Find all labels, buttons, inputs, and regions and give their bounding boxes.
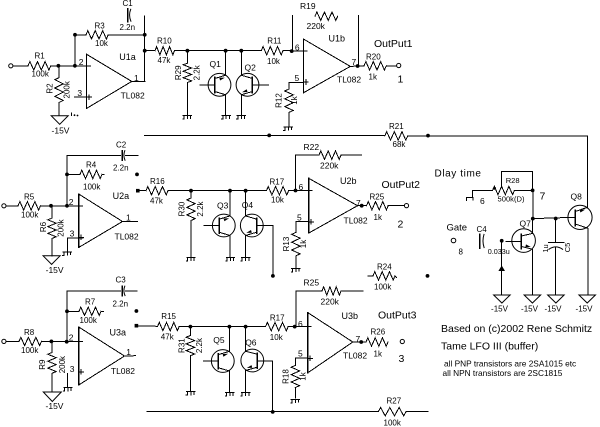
transistor Q7 <box>506 229 535 253</box>
transistor Q8 <box>568 205 592 229</box>
svg-text:Q8: Q8 <box>571 192 583 202</box>
label R10 <box>157 37 172 46</box>
wire to pin2 U2a <box>41 205 83 207</box>
svg-text:Q6: Q6 <box>245 337 257 347</box>
svg-text:7: 7 <box>352 57 357 67</box>
svg-text:200k: 200k <box>58 355 67 373</box>
svg-text:Dlay time: Dlay time <box>435 169 482 180</box>
junction dot Q4 collector <box>244 189 248 193</box>
wire R23 left <box>296 290 322 292</box>
label U3b <box>342 311 359 321</box>
resistor R17 ch2 <box>266 187 288 195</box>
wire to pin2 U3a <box>42 340 83 342</box>
label R3 <box>95 22 106 31</box>
label TL082 U2b <box>344 215 368 225</box>
svg-text:2: 2 <box>69 197 74 207</box>
resistor R11 <box>261 47 283 55</box>
junction dot R9 top <box>50 340 54 344</box>
svg-text:R9: R9 <box>38 359 47 370</box>
svg-text:R17: R17 <box>270 178 285 187</box>
junction dot pin2 U3a <box>65 340 69 344</box>
wire node7 to Q8 base <box>533 217 575 218</box>
label Q3 <box>217 201 229 211</box>
square node R15 left <box>135 324 139 328</box>
junction dot delay tap <box>426 134 430 138</box>
ground R31 <box>186 392 195 396</box>
svg-text:U2a: U2a <box>113 191 130 201</box>
label -15V ch3 <box>46 401 64 411</box>
op-amp U1b <box>303 39 350 93</box>
ground Q1 <box>222 116 231 120</box>
resistor R20 <box>364 62 386 70</box>
label -15V Q8 <box>576 305 594 314</box>
label R23 (reads R25) <box>304 278 320 288</box>
resistor R9 <box>48 341 56 392</box>
label Dlay time <box>435 169 482 180</box>
ground Q6 <box>241 393 250 397</box>
svg-text:C1: C1 <box>123 0 134 8</box>
label R21 <box>389 122 404 131</box>
svg-text:100k: 100k <box>83 183 101 192</box>
svg-text:TL082: TL082 <box>115 231 139 241</box>
wire input1 to R1 <box>13 65 28 67</box>
svg-text:10k: 10k <box>270 333 284 342</box>
ground R12 <box>284 127 293 131</box>
gate jack node 8 <box>451 238 456 243</box>
svg-text:10k: 10k <box>271 195 285 204</box>
junction dot node7 <box>531 217 535 221</box>
svg-text:R6: R6 <box>39 221 48 232</box>
svg-text:100k: 100k <box>21 346 39 355</box>
value 47k R16 <box>150 197 164 206</box>
label R17 ch3 <box>270 314 285 323</box>
pin 5 label U3b <box>298 348 303 358</box>
junction dot C5 top <box>554 217 558 221</box>
svg-text:3: 3 <box>399 353 405 365</box>
wire Q1 emitter to ground <box>225 95 227 115</box>
node 1 label <box>398 74 404 86</box>
value 200k R9 <box>58 355 67 373</box>
svg-text:1k: 1k <box>290 95 299 104</box>
plus marker U1a <box>87 95 92 100</box>
label R30 <box>178 201 187 216</box>
pin 3 label U1a <box>77 88 82 98</box>
transistor Q5 <box>203 350 234 373</box>
label R11 <box>267 37 282 46</box>
text tame lfo <box>441 341 538 353</box>
svg-text:2.2k: 2.2k <box>195 337 204 353</box>
svg-text:R7: R7 <box>85 298 96 307</box>
wire R15 lead <box>138 325 157 327</box>
label R19 <box>300 1 316 11</box>
label R26 <box>371 328 386 337</box>
value 220k R23 <box>321 297 340 307</box>
wire ch1 stage2 bus <box>187 50 291 52</box>
svg-text:R5: R5 <box>24 193 35 202</box>
svg-text:R21: R21 <box>389 122 404 131</box>
svg-text:100k: 100k <box>374 283 392 292</box>
transistor Q1 <box>200 73 231 96</box>
pin 5 stub U3b <box>295 357 307 359</box>
ground Q3 <box>226 258 235 262</box>
plus marker U3a <box>79 370 84 375</box>
output jack 2 <box>404 204 408 208</box>
junction dot R31 top <box>189 325 193 329</box>
label C1 <box>123 0 134 8</box>
wire Q6 base down <box>272 361 274 412</box>
svg-text:1k: 1k <box>369 73 378 82</box>
label -15V ch1 <box>52 125 70 135</box>
svg-text:200k: 200k <box>57 218 66 236</box>
ground R30 <box>186 258 195 262</box>
label R22 <box>304 142 320 152</box>
label R18 <box>282 369 291 384</box>
label TL082 U1b <box>337 75 361 85</box>
label TL082 U1a <box>121 91 145 101</box>
partial ground marks U1a pin3 <box>72 113 79 116</box>
value 1k R13 <box>299 239 308 248</box>
dot Q4 base net <box>271 274 275 278</box>
svg-text:U3a: U3a <box>110 328 127 338</box>
value 10k R17 ch3 <box>270 333 284 342</box>
value 2.2k R31 <box>195 337 204 353</box>
transistor Q2 <box>236 73 268 96</box>
wire node7 vertical <box>532 190 534 218</box>
label R1 <box>35 52 46 61</box>
label R25 <box>370 193 385 202</box>
svg-text:220k: 220k <box>307 21 326 31</box>
junction dot output U2b <box>360 204 364 208</box>
ground U3a pin3 <box>63 388 72 392</box>
wire Q2 collector <box>240 51 242 75</box>
resistor R21 <box>385 132 408 140</box>
wire pin2 to feedback <box>74 35 76 66</box>
resistor R7 <box>67 307 104 315</box>
svg-text:47k: 47k <box>161 333 175 342</box>
power -15V channel2 input <box>43 256 60 265</box>
wire Q5 collector <box>228 327 230 352</box>
value 1k R20 <box>369 73 378 82</box>
resistor R31 <box>186 327 194 391</box>
svg-text:R1: R1 <box>35 52 46 61</box>
label Q6 <box>245 337 257 347</box>
op-amp U3b <box>308 313 353 373</box>
text pnp note <box>444 359 576 369</box>
svg-text:TL082: TL082 <box>343 351 367 361</box>
svg-text:200k: 200k <box>63 80 72 98</box>
svg-text:2.2n: 2.2n <box>113 300 129 309</box>
wire Q4 emitter to ground <box>245 236 247 257</box>
pin 3 label U2a <box>70 229 75 239</box>
label Q4 <box>242 200 254 210</box>
label R2 <box>46 83 55 94</box>
svg-text:2: 2 <box>398 219 404 231</box>
wire ch3 delay bus <box>147 411 428 413</box>
junction dot feedback left <box>73 33 77 37</box>
svg-text:Q4: Q4 <box>242 200 254 210</box>
junction dot R4 left <box>65 173 69 177</box>
svg-text:-15V: -15V <box>46 265 64 275</box>
jack node 6 symbol <box>467 197 473 200</box>
svg-text:2.2k: 2.2k <box>196 200 205 216</box>
wire Q3 collector <box>229 191 231 216</box>
capacitor C2 <box>67 151 138 161</box>
svg-text:2: 2 <box>69 333 74 343</box>
op-amp U3a <box>79 327 125 385</box>
value 100k R24 <box>374 283 392 292</box>
feedback left wire U3b <box>295 291 297 327</box>
resistor R19 <box>315 12 338 20</box>
svg-text:Gate: Gate <box>447 223 468 234</box>
svg-text:6: 6 <box>299 182 304 192</box>
power -15V C5 <box>548 295 565 303</box>
node 6 label <box>480 196 485 206</box>
wire U1a output to node <box>132 80 145 82</box>
svg-text:1k: 1k <box>299 239 308 248</box>
svg-text:R26: R26 <box>371 328 386 337</box>
ground Q5 <box>225 393 234 397</box>
label Q2 <box>245 63 257 73</box>
svg-text:R3: R3 <box>95 22 106 31</box>
svg-text:Q2: Q2 <box>245 63 257 73</box>
svg-text:R17: R17 <box>270 314 285 323</box>
svg-text:-15V: -15V <box>545 305 563 314</box>
junction dot feedback C1R3 <box>143 33 147 37</box>
svg-text:Q5: Q5 <box>213 335 225 345</box>
svg-text:TL082: TL082 <box>111 366 135 376</box>
svg-text:OutPut2: OutPut2 <box>382 179 421 191</box>
resistor R22 <box>319 151 341 159</box>
resistor R30 <box>187 191 195 257</box>
junction dot pin6 U2b <box>294 189 298 193</box>
wire R28 to jack6 <box>472 191 480 198</box>
svg-text:10k: 10k <box>267 57 281 66</box>
wire Q5 emitter to ground <box>228 371 230 392</box>
text npn note <box>443 368 563 378</box>
value 100k R4 <box>83 183 101 192</box>
wire C2 to pin2 <box>66 155 68 205</box>
label R5 <box>24 193 35 202</box>
svg-text:10k: 10k <box>95 39 109 48</box>
svg-text:3: 3 <box>70 364 75 374</box>
ground U2a pin3 <box>63 252 72 256</box>
value 10k R11 <box>267 57 281 66</box>
value 2.2k R30 <box>196 200 205 216</box>
label R15 <box>161 312 176 321</box>
pin 2 label U3a <box>69 333 74 343</box>
wire Q2 emitter to ground <box>240 95 242 115</box>
svg-text:1k: 1k <box>374 350 383 359</box>
value 500k(D) R28 <box>498 195 525 204</box>
junction dot Q6 base net <box>271 410 275 414</box>
svg-text:R22: R22 <box>304 142 320 152</box>
ground R18 <box>291 399 300 403</box>
svg-text:R2: R2 <box>46 83 55 94</box>
svg-text:Tame LFO III (buffer): Tame LFO III (buffer) <box>441 341 538 353</box>
label R7 <box>85 298 96 307</box>
svg-text:-15V: -15V <box>521 305 539 314</box>
wire Q6 collector <box>245 327 247 352</box>
node 8 label <box>459 248 464 257</box>
plus marker U1b <box>304 80 309 85</box>
svg-text:1u: 1u <box>541 244 550 252</box>
svg-text:R19: R19 <box>300 1 316 11</box>
junction dot output U3b <box>359 340 363 344</box>
value 220k R22 <box>320 161 339 171</box>
junction dot pin2 U2a <box>65 204 69 208</box>
svg-text:R25: R25 <box>370 193 385 202</box>
svg-text:100k: 100k <box>384 419 402 427</box>
resistor R17 ch3 <box>266 322 289 330</box>
label U2b <box>340 176 357 186</box>
svg-text:OutPut3: OutPut3 <box>378 310 417 322</box>
svg-text:R25: R25 <box>304 278 320 288</box>
label Gate <box>447 223 468 234</box>
capacitor C1 <box>128 9 131 22</box>
svg-text:R11: R11 <box>267 37 282 46</box>
junction dot Q3 collector <box>228 189 232 193</box>
svg-text:220k: 220k <box>321 297 340 307</box>
junction dot R2 top <box>57 64 61 68</box>
text based on <box>441 323 592 335</box>
pin 7 label U3b <box>356 334 361 344</box>
wire R25 to jack2 <box>388 205 404 207</box>
label -15V ch2 <box>46 265 64 275</box>
op-amp U2b <box>309 178 358 233</box>
svg-text:Q1: Q1 <box>210 59 222 69</box>
svg-text:3: 3 <box>70 229 75 239</box>
svg-text:-15V: -15V <box>491 305 509 314</box>
resistor R10 <box>145 47 188 55</box>
ground R13 <box>291 268 300 272</box>
feedback left wire U2b <box>295 155 297 190</box>
value 2.2n C2 <box>113 164 129 173</box>
feedback left wire U1b <box>291 16 293 52</box>
transistor Q3 <box>204 214 235 237</box>
svg-text:C3: C3 <box>116 276 127 285</box>
value 2.2n C1 <box>120 23 136 32</box>
label R31 <box>178 338 187 353</box>
label U3a <box>110 328 127 338</box>
resistor R12 <box>285 82 293 126</box>
junction dot R6 top <box>49 204 53 208</box>
pin 2 label U1a <box>79 57 84 67</box>
pin 5 stub U2b <box>296 220 309 222</box>
svg-text:1k: 1k <box>299 371 308 380</box>
junction dot C4 right <box>500 239 504 243</box>
value 1k R26 <box>374 350 383 359</box>
svg-text:R8: R8 <box>24 328 35 337</box>
svg-text:0.033u: 0.033u <box>488 247 510 256</box>
wire U1b out <box>350 65 364 68</box>
svg-text:U1a: U1a <box>119 52 136 62</box>
svg-text:-15V: -15V <box>46 401 64 411</box>
svg-text:6: 6 <box>298 319 303 329</box>
label R16 <box>150 177 165 186</box>
value 1u C5 <box>541 244 550 252</box>
svg-text:8: 8 <box>459 248 464 257</box>
svg-text:68k: 68k <box>393 140 407 149</box>
pot loop R28 <box>502 172 533 191</box>
pin 6 label U2b <box>299 182 304 192</box>
junction dot pin6 U3b <box>293 325 297 329</box>
label R4 <box>86 161 97 170</box>
wire U2a output stub <box>123 221 138 223</box>
pin 1 label U3a <box>126 347 131 357</box>
label -15V C5 <box>545 305 563 314</box>
svg-text:OutPut1: OutPut1 <box>374 38 413 50</box>
capacitor C4 <box>480 234 484 248</box>
resistor R3 <box>86 31 108 39</box>
resistor R6 <box>48 206 56 256</box>
value 2.2n C3 <box>113 300 129 309</box>
wire U2b out <box>358 205 367 207</box>
resistor R26 <box>366 338 388 346</box>
junction dot Q5 collector <box>228 325 232 329</box>
pin 1 label U2a <box>126 213 131 223</box>
value 2.2k R29 <box>193 64 202 80</box>
svg-text:TL082: TL082 <box>344 215 368 225</box>
wire Q6 emitter to ground <box>245 371 247 392</box>
label R17 ch2 <box>270 178 285 187</box>
pin 2 label U2a <box>69 197 74 207</box>
svg-text:R4: R4 <box>86 161 97 170</box>
label R20 <box>366 53 381 62</box>
pin 5 label U1b <box>295 73 300 83</box>
wire input2 to R5 <box>6 205 18 207</box>
junction dot R30 top <box>189 189 193 193</box>
value 200k R2 <box>63 80 72 98</box>
svg-text:R29: R29 <box>174 65 183 80</box>
junction dot R10 left <box>143 49 147 53</box>
junction dot Q1 collector <box>224 49 228 53</box>
wire Q7 collector <box>532 219 534 234</box>
resistor R5 <box>18 202 41 210</box>
svg-text:100k: 100k <box>21 211 39 220</box>
svg-text:R24: R24 <box>377 263 392 272</box>
svg-text:5: 5 <box>298 348 303 358</box>
label R12 <box>275 93 284 108</box>
junction dot pin2 U1a <box>73 64 77 68</box>
wire delay feedback left <box>145 134 385 136</box>
label R6 <box>39 221 48 232</box>
svg-text:U2b: U2b <box>340 176 357 186</box>
svg-text:R28: R28 <box>506 176 520 185</box>
label R28 <box>506 176 520 185</box>
svg-text:6: 6 <box>480 196 485 206</box>
svg-text:U1b: U1b <box>329 34 346 44</box>
resistor R16 <box>146 187 168 195</box>
wire Q8 emitter down <box>587 228 589 294</box>
output jack 1 <box>397 63 401 67</box>
op-amp U1a <box>87 54 132 108</box>
junction dot pin6 U1b <box>290 49 294 53</box>
resistor R27 <box>378 408 406 416</box>
value 220k R19 <box>307 21 326 31</box>
plus marker U2a <box>79 235 84 240</box>
plus marker U2b <box>309 220 314 225</box>
wire R22 left <box>296 154 320 156</box>
pin 6 label U1b <box>295 43 300 53</box>
svg-text:220k: 220k <box>320 161 339 171</box>
wire Q1 collector <box>225 51 227 75</box>
value 68k R21 <box>393 140 407 149</box>
input jack channel 1 <box>9 64 13 68</box>
feedback right wire U1b <box>357 16 359 66</box>
svg-text:R27: R27 <box>387 397 402 406</box>
dot R28 wiper <box>493 187 496 190</box>
value 100k R8 <box>21 346 39 355</box>
